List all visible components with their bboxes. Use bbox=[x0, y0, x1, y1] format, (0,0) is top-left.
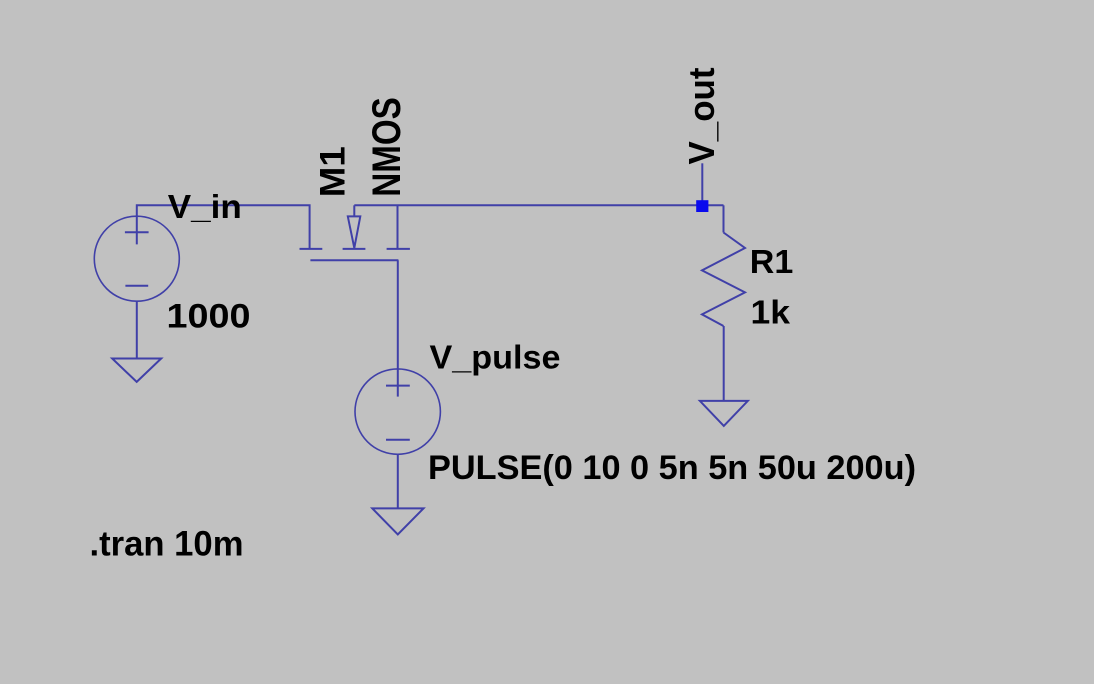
wire V_pulse bottom lead bbox=[397, 454, 399, 508]
voltage source V_in bbox=[94, 216, 179, 301]
ground below R1 bbox=[700, 401, 748, 426]
ground below V_in bbox=[112, 359, 161, 382]
wire node to resistor bbox=[723, 205, 725, 232]
svg-text:1000: 1000 bbox=[167, 297, 251, 335]
ground below V_pulse bbox=[372, 508, 423, 534]
wire drain to V_out node bbox=[354, 204, 723, 206]
svg-text:V_in: V_in bbox=[168, 188, 242, 225]
svg-text:NMOS: NMOS bbox=[365, 97, 409, 197]
svg-text:V_pulse: V_pulse bbox=[430, 339, 561, 376]
svg-text:.tran 10m: .tran 10m bbox=[90, 525, 244, 564]
node V_out junction bbox=[696, 200, 708, 212]
svg-text:V_out: V_out bbox=[681, 68, 722, 165]
svg-text:PULSE(0 10 0 5n 5n 50u 200u): PULSE(0 10 0 5n 5n 50u 200u) bbox=[428, 449, 916, 487]
resistor R1 bbox=[702, 233, 745, 327]
wire source down to V_pulse bbox=[397, 260, 399, 369]
svg-text:M1: M1 bbox=[313, 146, 352, 197]
svg-text:1k: 1k bbox=[751, 293, 791, 330]
wire resistor bottom lead bbox=[723, 326, 725, 401]
wire V_in top to gate bbox=[137, 205, 310, 249]
svg-text:R1: R1 bbox=[750, 243, 794, 280]
wire V_in bottom lead bbox=[136, 301, 138, 359]
voltage source V_pulse bbox=[355, 369, 440, 454]
transistor M1 bbox=[300, 205, 410, 260]
wire V_out label stub bbox=[701, 163, 703, 200]
